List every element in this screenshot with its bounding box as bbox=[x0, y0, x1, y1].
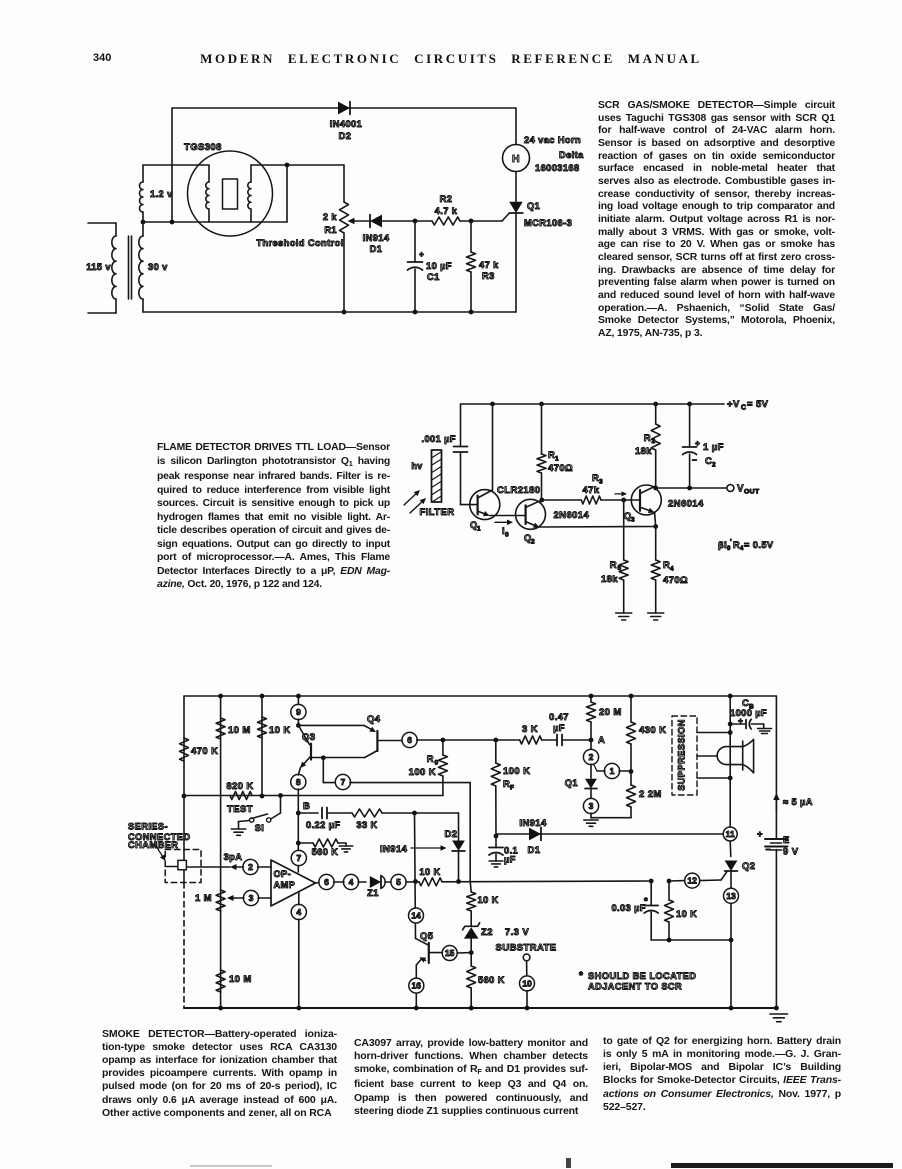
svg-text:B: B bbox=[303, 801, 310, 812]
svg-text:+: + bbox=[757, 829, 763, 840]
svg-text:R1: R1 bbox=[324, 225, 337, 235]
svg-text:3: 3 bbox=[599, 479, 603, 486]
svg-text:560 K: 560 K bbox=[478, 975, 505, 985]
svg-text:470 K: 470 K bbox=[191, 746, 218, 757]
svg-text:2: 2 bbox=[589, 752, 594, 762]
svg-text:0.22 µF: 0.22 µF bbox=[306, 820, 341, 830]
svg-text:13: 13 bbox=[726, 891, 736, 901]
svg-text:hv: hv bbox=[411, 461, 422, 471]
svg-text:AMP: AMP bbox=[274, 880, 296, 890]
svg-text:47k: 47k bbox=[582, 485, 599, 496]
svg-text:115 v: 115 v bbox=[86, 262, 111, 272]
svg-text:470Ω: 470Ω bbox=[663, 575, 688, 586]
svg-text:−: − bbox=[692, 455, 697, 465]
svg-text:100 K: 100 K bbox=[503, 766, 530, 777]
svg-text:30 v: 30 v bbox=[148, 262, 168, 272]
svg-text:0: 0 bbox=[727, 546, 731, 552]
svg-text:+V: +V bbox=[727, 399, 740, 410]
svg-text:IN4001: IN4001 bbox=[330, 119, 362, 129]
svg-text:Z1: Z1 bbox=[367, 888, 379, 898]
svg-text:R: R bbox=[644, 433, 651, 444]
svg-text:IN914: IN914 bbox=[380, 844, 408, 855]
svg-text:4: 4 bbox=[296, 907, 301, 917]
svg-text:Q3: Q3 bbox=[302, 732, 315, 743]
svg-text:9: 9 bbox=[296, 707, 301, 717]
svg-text:10 M: 10 M bbox=[229, 974, 252, 985]
svg-text:Delta: Delta bbox=[559, 150, 584, 160]
svg-text:10 µF: 10 µF bbox=[426, 261, 452, 271]
svg-text:10 K: 10 K bbox=[419, 867, 440, 877]
svg-text:12: 12 bbox=[687, 876, 697, 886]
svg-text:TGS308: TGS308 bbox=[184, 142, 222, 153]
svg-text:D2: D2 bbox=[445, 829, 458, 840]
svg-text:20 M: 20 M bbox=[599, 707, 622, 718]
svg-text:D1: D1 bbox=[370, 244, 383, 254]
svg-text:C: C bbox=[741, 405, 746, 412]
svg-text:Z2: Z2 bbox=[481, 927, 493, 938]
svg-text:βi: βi bbox=[718, 540, 727, 550]
svg-text:D1: D1 bbox=[528, 845, 541, 856]
svg-text:33 K: 33 K bbox=[356, 820, 377, 830]
svg-text:5: 5 bbox=[396, 877, 401, 887]
svg-text:+: + bbox=[738, 716, 743, 726]
svg-text:11: 11 bbox=[726, 829, 735, 839]
svg-text:10 K: 10 K bbox=[478, 895, 499, 905]
svg-text:A: A bbox=[598, 735, 605, 746]
svg-text:SERIES-: SERIES- bbox=[128, 822, 168, 832]
svg-text:7: 7 bbox=[296, 853, 301, 863]
svg-text:2N6014: 2N6014 bbox=[668, 499, 704, 510]
svg-text:IN914: IN914 bbox=[363, 233, 390, 243]
svg-text:4: 4 bbox=[349, 877, 354, 887]
svg-text:16003168: 16003168 bbox=[535, 163, 580, 173]
svg-text:Q1: Q1 bbox=[565, 778, 578, 788]
svg-text:18k: 18k bbox=[635, 446, 652, 457]
svg-text:24 vac Horn: 24 vac Horn bbox=[524, 135, 581, 145]
svg-text:OUT: OUT bbox=[744, 489, 760, 496]
svg-text:µF: µF bbox=[553, 723, 565, 733]
svg-text:R2: R2 bbox=[440, 194, 453, 204]
svg-text:−: − bbox=[765, 845, 771, 855]
svg-text:C1: C1 bbox=[427, 272, 440, 282]
svg-text:3: 3 bbox=[589, 801, 594, 811]
svg-text:10 M: 10 M bbox=[228, 725, 251, 736]
svg-text:1 M: 1 M bbox=[195, 893, 212, 904]
svg-text:SUPPRESSION: SUPPRESSION bbox=[677, 719, 687, 791]
svg-text:D2: D2 bbox=[339, 131, 352, 141]
svg-text:4.7 k: 4.7 k bbox=[435, 206, 458, 216]
svg-text:6: 6 bbox=[407, 735, 412, 745]
svg-text:*: * bbox=[579, 971, 583, 982]
svg-text:3: 3 bbox=[249, 893, 254, 903]
svg-text:430 K: 430 K bbox=[639, 725, 666, 736]
svg-text:≈ 5 µA: ≈ 5 µA bbox=[783, 797, 813, 807]
svg-text:7: 7 bbox=[341, 777, 346, 787]
svg-text:4: 4 bbox=[670, 566, 674, 573]
svg-text:5: 5 bbox=[618, 565, 622, 572]
svg-text:= 5V: = 5V bbox=[747, 399, 769, 410]
svg-text:0: 0 bbox=[435, 760, 439, 767]
svg-text:SUBSTRATE: SUBSTRATE bbox=[496, 943, 557, 954]
svg-text:10 K: 10 K bbox=[269, 725, 291, 736]
svg-text:2: 2 bbox=[248, 862, 253, 872]
svg-text:TEST: TEST bbox=[227, 804, 253, 815]
svg-text:14: 14 bbox=[411, 911, 421, 921]
svg-text:R: R bbox=[610, 560, 617, 571]
svg-text:H: H bbox=[512, 153, 520, 165]
svg-text:3: 3 bbox=[631, 517, 635, 524]
svg-text:2: 2 bbox=[712, 462, 716, 469]
svg-text:CLR2180: CLR2180 bbox=[497, 485, 540, 496]
svg-text:Threshold Control: Threshold Control bbox=[256, 238, 343, 248]
svg-text:470Ω: 470Ω bbox=[548, 463, 573, 474]
svg-text:2 k: 2 k bbox=[323, 212, 338, 222]
svg-text:3 K: 3 K bbox=[522, 724, 538, 735]
svg-text:+: + bbox=[419, 249, 424, 259]
svg-text:0.03 µF: 0.03 µF bbox=[611, 903, 646, 913]
svg-text:3pA: 3pA bbox=[224, 852, 243, 862]
svg-text:1000 µF: 1000 µF bbox=[730, 708, 767, 718]
svg-text:*: * bbox=[644, 896, 648, 907]
svg-text:Q1: Q1 bbox=[527, 201, 540, 211]
svg-text:2: 2 bbox=[652, 438, 656, 445]
svg-text:560 K: 560 K bbox=[312, 847, 339, 857]
svg-text:2N6014: 2N6014 bbox=[554, 510, 590, 521]
svg-text:Q5: Q5 bbox=[420, 931, 434, 942]
svg-text:2: 2 bbox=[531, 539, 535, 546]
svg-text:.001 µF: .001 µF bbox=[421, 434, 456, 444]
svg-text:100 K: 100 K bbox=[409, 767, 436, 778]
svg-text:Q4: Q4 bbox=[367, 714, 381, 725]
svg-text:820 K: 820 K bbox=[226, 781, 253, 792]
svg-text:7.3 V: 7.3 V bbox=[505, 927, 529, 938]
svg-text:16: 16 bbox=[412, 981, 422, 991]
svg-text:10: 10 bbox=[522, 978, 532, 988]
svg-text:9 V: 9 V bbox=[783, 847, 799, 858]
svg-text:10 K: 10 K bbox=[676, 909, 697, 919]
svg-text:CHAMBER: CHAMBER bbox=[128, 840, 178, 850]
svg-text:1 µF: 1 µF bbox=[703, 442, 724, 453]
svg-text:µF: µF bbox=[504, 855, 516, 865]
svg-text:18k: 18k bbox=[601, 574, 618, 585]
svg-text:E: E bbox=[783, 835, 790, 846]
svg-text:SI: SI bbox=[255, 823, 264, 833]
svg-text:15: 15 bbox=[445, 948, 455, 958]
svg-text:6: 6 bbox=[324, 877, 329, 887]
svg-text:V: V bbox=[737, 484, 744, 495]
svg-text:47 k: 47 k bbox=[479, 260, 499, 270]
svg-text:R3: R3 bbox=[482, 271, 495, 281]
svg-text:ADJACENT TO SCR: ADJACENT TO SCR bbox=[588, 982, 682, 992]
svg-text:IN914: IN914 bbox=[519, 818, 547, 829]
svg-text:F: F bbox=[510, 785, 514, 792]
svg-text:+: + bbox=[695, 438, 700, 448]
svg-text:1: 1 bbox=[610, 766, 615, 776]
svg-text:= 0.5V: = 0.5V bbox=[744, 540, 774, 550]
svg-text:8: 8 bbox=[296, 777, 301, 787]
svg-text:FILTER: FILTER bbox=[420, 507, 455, 518]
svg-text:SHOULD BE LOCATED: SHOULD BE LOCATED bbox=[588, 971, 696, 981]
svg-text:1: 1 bbox=[555, 456, 559, 463]
svg-text:': ' bbox=[730, 539, 732, 546]
svg-text:R: R bbox=[427, 754, 434, 765]
svg-text:0.47: 0.47 bbox=[549, 712, 569, 722]
svg-text:OP-: OP- bbox=[274, 869, 292, 879]
svg-text:1.2 v: 1.2 v bbox=[150, 189, 173, 199]
svg-text:2 2M: 2 2M bbox=[639, 789, 662, 800]
svg-text:1: 1 bbox=[477, 526, 481, 533]
svg-text:0: 0 bbox=[505, 532, 509, 539]
svg-text:MCR106-3: MCR106-3 bbox=[524, 218, 572, 228]
svg-text:Q2: Q2 bbox=[742, 861, 755, 872]
